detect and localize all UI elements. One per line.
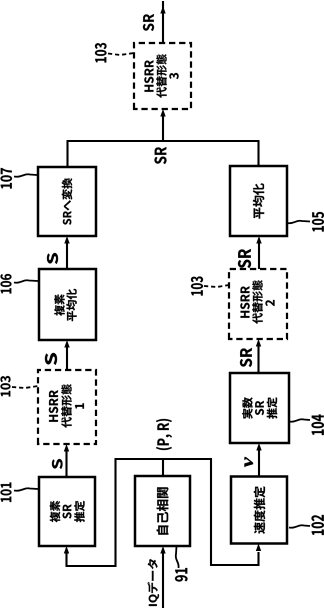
text 複素 in block 106 bbox=[54, 294, 64, 315]
text HSRR in dashed box 1 bbox=[49, 390, 58, 422]
arrowhead into block 107 bbox=[64, 236, 69, 244]
reference numeral 103 (box 1) bbox=[0, 376, 10, 396]
arrowhead into dashed box 1 bbox=[64, 444, 69, 452]
block 101 box (complex SR estimation) bbox=[39, 477, 95, 546]
wire S from block 101 to dashed box 1 bbox=[65, 451, 67, 477]
leader line for 105 bbox=[287, 221, 310, 224]
leader line for 102 bbox=[289, 525, 310, 528]
dashed leader for 103 (box 1) bbox=[12, 386, 38, 388]
wire block 107 output to SR junction bbox=[66, 141, 68, 167]
text 代替形態 in dashed box 2 bbox=[252, 280, 262, 324]
text 自己相関 in block 91 bbox=[157, 487, 169, 534]
block 91 box (autocorrelation) bbox=[135, 476, 190, 546]
reference numeral 103 (box 2) bbox=[191, 276, 203, 295]
wire block 105 output to SR junction bbox=[257, 141, 259, 166]
block 103 dashed box (HSRR alternative form 1) bbox=[38, 370, 96, 444]
text 平均化 in block 106 bbox=[66, 289, 76, 321]
block 103 dashed box (HSRR alternative form 3) bbox=[134, 43, 191, 109]
text 代替形態 in dashed box 1 bbox=[61, 384, 71, 428]
arrowhead into dashed box 2 bbox=[256, 339, 261, 347]
wire v from block 102 to block 104 bbox=[258, 450, 260, 477]
text HSRR in dashed box 2 bbox=[240, 286, 249, 318]
text SR in block 101 bbox=[63, 504, 72, 518]
reference numeral 104 bbox=[311, 414, 324, 434]
wire IQ data input into block 91 bbox=[162, 553, 164, 608]
block 104 box (real SR estimation) bbox=[230, 373, 289, 443]
wire S from block 106 to block 107 bbox=[66, 243, 68, 269]
dashed leader for 103 (box 3) bbox=[108, 53, 134, 55]
arrowhead into dashed box 3 bbox=[160, 109, 165, 117]
dashed leader for 103 (box 2) bbox=[204, 285, 229, 287]
block 107 box (convert to SR) bbox=[38, 167, 96, 236]
wire SR output from dashed box 3 bbox=[162, 1, 164, 43]
wire SR junction vertical bbox=[67, 140, 260, 142]
text 3 in dashed box 3 bbox=[169, 73, 178, 79]
reference numeral 107 bbox=[1, 168, 13, 189]
wire SR from dashed box 2 to block 105 bbox=[258, 243, 260, 269]
net label (P, R) bbox=[156, 419, 172, 450]
net label SR (junction) bbox=[155, 147, 167, 164]
net label SR (output) bbox=[143, 14, 154, 31]
net label SR (box2 to 105) bbox=[238, 249, 251, 268]
reference numeral 91 bbox=[175, 568, 188, 581]
leader line for 91 bbox=[176, 546, 179, 568]
wire (P,R) branch to block 102 bbox=[211, 459, 259, 565]
wire SR from block 104 to dashed box 2 bbox=[257, 346, 259, 373]
text SR in block 104 bbox=[255, 401, 264, 415]
text SRへ変換 in block 107 bbox=[62, 178, 72, 225]
leader line for 106 bbox=[14, 280, 38, 283]
arrowhead into block 106 bbox=[64, 340, 69, 348]
net label IQデータ input bbox=[147, 559, 158, 606]
text 代替形態 in dashed box 3 bbox=[156, 54, 166, 98]
arrowhead SR output bbox=[160, 6, 165, 14]
net label S (box1 to 106) bbox=[45, 353, 57, 365]
text 推定 in block 104 bbox=[267, 397, 277, 418]
arrowhead into block 102 bbox=[256, 544, 261, 552]
block 106 box (complex averaging) bbox=[39, 269, 96, 340]
leader line for 101 bbox=[14, 488, 38, 491]
reference numeral 106 bbox=[0, 274, 11, 293]
wire S from dashed box 1 to block 106 bbox=[66, 347, 68, 370]
text 推定 in block 101 bbox=[74, 501, 84, 522]
text 平均化 in block 105 bbox=[253, 183, 264, 218]
net label SR (104 to box2) bbox=[240, 348, 252, 367]
reference numeral 103 (box 3) bbox=[95, 43, 107, 62]
reference numeral 105 bbox=[312, 212, 324, 231]
arrowhead into block 101 bbox=[64, 546, 69, 554]
text 速度推定 in block 102 bbox=[254, 486, 265, 533]
arrowhead into block 105 bbox=[256, 236, 261, 244]
block 102 box (velocity estimation) bbox=[231, 477, 287, 544]
leader line for 104 bbox=[289, 419, 310, 422]
wire (P,R) branch to block 101 bbox=[67, 459, 116, 566]
text HSRR in dashed box 3 bbox=[144, 60, 153, 92]
wire block 91 output to (P,R) junction bbox=[162, 459, 164, 476]
arrowhead into block 91 bbox=[160, 546, 165, 554]
text 1 in dashed box 1 bbox=[75, 403, 84, 408]
arrowhead into block 104 bbox=[256, 443, 261, 451]
text 複素 in block 101 bbox=[50, 501, 60, 522]
wire (P,R) vertical split bbox=[115, 458, 213, 460]
reference numeral 101 bbox=[0, 482, 11, 501]
text 実数 in block 104 bbox=[242, 397, 252, 418]
text 2 in dashed box 2 bbox=[265, 300, 274, 306]
net label S (106 to 107) bbox=[47, 253, 58, 264]
reference numeral 102 bbox=[311, 515, 324, 535]
block 103 dashed box (HSRR alternative form 2) bbox=[229, 269, 287, 339]
net label v (102 to 104) bbox=[245, 457, 253, 467]
leader line for 107 bbox=[14, 174, 37, 177]
net label S (101 to box1) bbox=[52, 459, 62, 469]
block 105 box (averaging) bbox=[230, 166, 287, 236]
wire SR junction to dashed box 3 bbox=[162, 116, 164, 141]
